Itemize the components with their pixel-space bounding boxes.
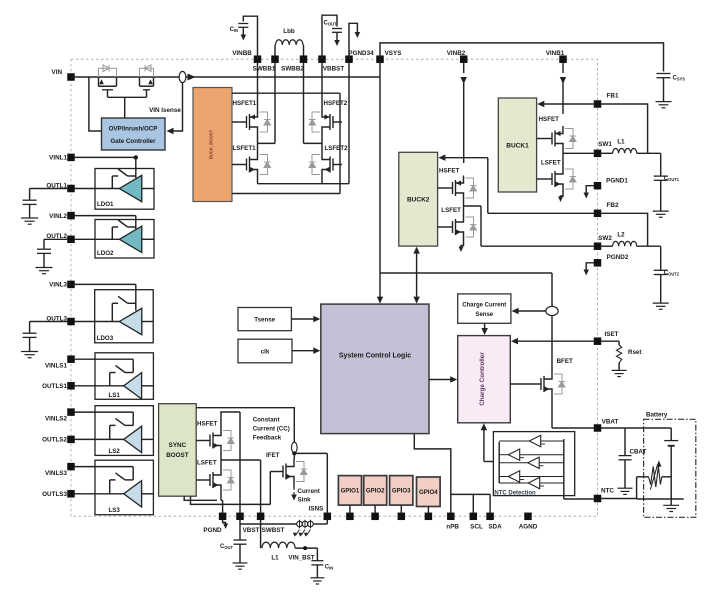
svg-text:Sink: Sink [298, 497, 312, 504]
svg-text:BUCK_BOOST: BUCK_BOOST [209, 129, 214, 159]
svg-text:Constant: Constant [253, 417, 280, 424]
svg-text:VINLS3: VINLS3 [45, 470, 68, 477]
svg-text:HSFET2: HSFET2 [324, 100, 348, 107]
svg-text:GPIO4: GPIO4 [419, 489, 438, 496]
svg-text:OUTLS1: OUTLS1 [42, 383, 67, 390]
svg-text:GPIO3: GPIO3 [392, 488, 411, 495]
svg-text:LDO3: LDO3 [97, 335, 114, 342]
svg-text:SYNC: SYNC [169, 442, 187, 449]
svg-text:OUTLS2: OUTLS2 [42, 437, 67, 444]
svg-text:VINL2: VINL2 [49, 213, 67, 220]
svg-text:VINLS2: VINLS2 [45, 416, 68, 423]
svg-text:VINL3: VINL3 [49, 282, 67, 289]
svg-text:LSFET: LSFET [441, 207, 461, 214]
svg-text:VIN: VIN [52, 69, 63, 76]
svg-text:Feedback: Feedback [253, 435, 282, 442]
svg-text:CIN: CIN [230, 27, 238, 33]
svg-text:LDO2: LDO2 [97, 250, 114, 257]
svg-text:L1: L1 [617, 139, 625, 146]
svg-text:VIN Isense: VIN Isense [149, 107, 181, 114]
svg-text:SCL: SCL [470, 524, 483, 531]
svg-text:FB2: FB2 [607, 202, 619, 209]
svg-text:CSYS: CSYS [673, 76, 686, 82]
svg-text:ISNS: ISNS [309, 506, 324, 513]
svg-text:LS3: LS3 [109, 507, 121, 514]
svg-text:Tsense: Tsense [254, 317, 275, 324]
svg-text:Charge Current: Charge Current [462, 303, 506, 309]
svg-text:HSFET: HSFET [539, 116, 560, 123]
svg-text:PGND2: PGND2 [607, 254, 629, 261]
svg-text:IFET: IFET [266, 452, 280, 459]
svg-text:Rset: Rset [628, 349, 641, 356]
svg-text:FB1: FB1 [607, 93, 619, 100]
svg-text:VINLS1: VINLS1 [45, 363, 68, 370]
svg-text:LDO1: LDO1 [97, 201, 114, 208]
svg-text:SW1: SW1 [598, 141, 612, 148]
svg-text:LS1: LS1 [109, 392, 121, 399]
svg-text:Current (CC): Current (CC) [253, 426, 290, 433]
svg-text:nPB: nPB [446, 524, 459, 531]
svg-text:VBBST: VBBST [323, 66, 344, 73]
svg-text:LSFET: LSFET [197, 460, 217, 467]
svg-text:LSFET: LSFET [541, 160, 561, 167]
svg-text:SWBST: SWBST [262, 527, 285, 534]
svg-text:PGND34: PGND34 [348, 50, 374, 57]
svg-text:GPIO2: GPIO2 [366, 488, 385, 495]
svg-text:CIN: CIN [325, 565, 333, 571]
svg-text:ISET: ISET [605, 331, 619, 338]
svg-text:COUT1: COUT1 [664, 176, 680, 182]
svg-text:BOOST: BOOST [166, 452, 189, 459]
svg-text:clk: clk [261, 349, 270, 356]
svg-text:HSFET: HSFET [197, 421, 218, 428]
svg-text:Gate Controller: Gate Controller [110, 138, 156, 145]
svg-text:GPIO1: GPIO1 [341, 488, 360, 495]
svg-text:SWBB2: SWBB2 [281, 66, 304, 73]
svg-text:L2: L2 [617, 232, 625, 239]
svg-text:Sense: Sense [475, 312, 493, 318]
svg-text:VINB1: VINB1 [546, 50, 565, 57]
svg-text:VSYS: VSYS [385, 50, 402, 57]
svg-text:HSFET1: HSFET1 [233, 100, 257, 107]
svg-text:SW2: SW2 [598, 235, 612, 242]
svg-text:VBST: VBST [243, 527, 260, 534]
svg-text:VINB2: VINB2 [447, 50, 466, 57]
svg-text:Battery: Battery [646, 412, 668, 419]
svg-text:COUT: COUT [220, 544, 233, 550]
svg-text:VINL1: VINL1 [49, 155, 67, 162]
svg-text:VINBB: VINBB [232, 50, 252, 57]
svg-text:LSFET1: LSFET1 [233, 145, 257, 152]
svg-text:AGND: AGND [519, 524, 538, 531]
svg-text:PGND: PGND [203, 527, 222, 534]
svg-text:Current: Current [298, 488, 320, 495]
svg-text:Lbb: Lbb [283, 28, 295, 35]
svg-text:SDA: SDA [488, 524, 502, 531]
svg-text:LSFET2: LSFET2 [325, 145, 349, 152]
svg-text:VIN_BST: VIN_BST [288, 555, 314, 562]
svg-text:VBAT: VBAT [602, 419, 619, 426]
svg-text:HSFET: HSFET [439, 168, 460, 175]
svg-text:BUCK1: BUCK1 [506, 143, 529, 150]
svg-text:COUT2: COUT2 [664, 271, 680, 277]
svg-text:L1: L1 [271, 555, 279, 562]
svg-text:NTC: NTC [601, 488, 614, 495]
svg-text:LS2: LS2 [109, 448, 121, 455]
svg-text:BUCK2: BUCK2 [407, 197, 430, 204]
svg-text:OVP/Inrush/OCP: OVP/Inrush/OCP [109, 126, 158, 133]
svg-text:SWBB1: SWBB1 [253, 66, 276, 73]
svg-text:PGND1: PGND1 [606, 178, 628, 185]
svg-text:COUT: COUT [324, 21, 337, 27]
svg-text:Charge Controller: Charge Controller [479, 352, 486, 406]
svg-text:OUTLS3: OUTLS3 [42, 491, 67, 498]
svg-text:NTC Detection: NTC Detection [494, 491, 536, 497]
svg-text:System Control Logic: System Control Logic [339, 353, 411, 360]
svg-text:BFET: BFET [557, 358, 573, 365]
